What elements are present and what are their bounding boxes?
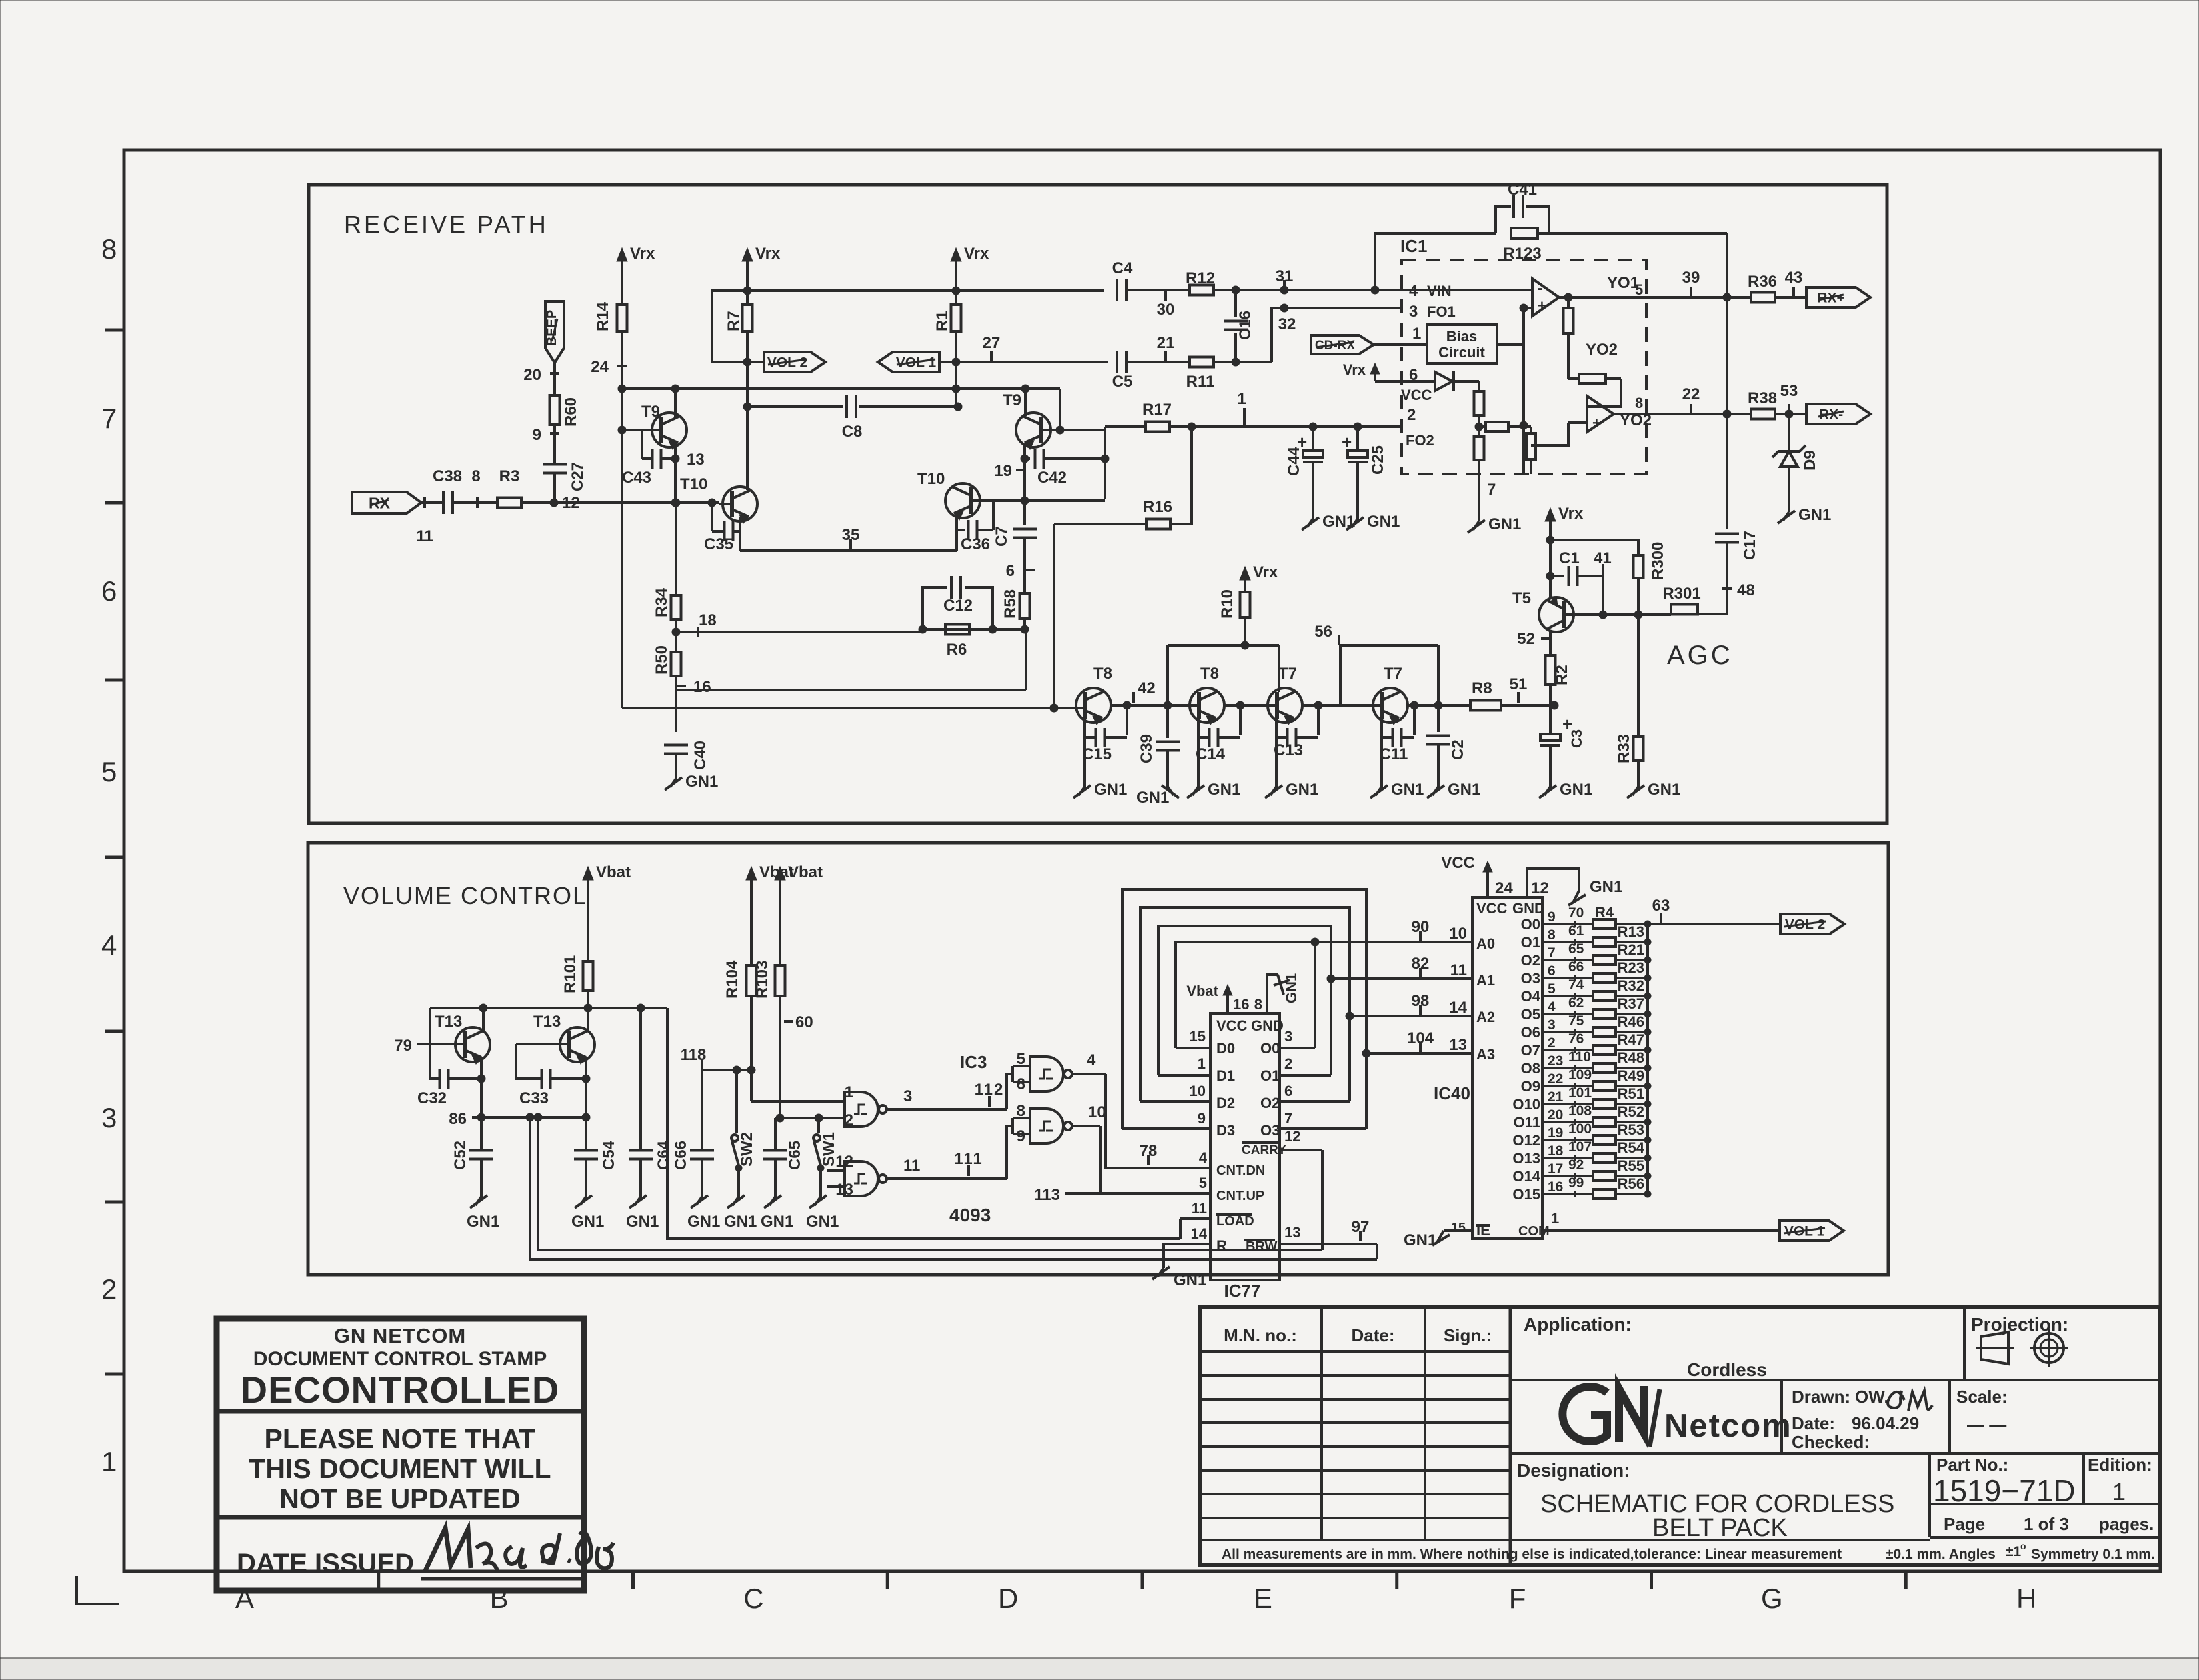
capacitor C52	[451, 1141, 493, 1197]
svg-text:O14: O14	[1512, 1168, 1540, 1185]
scale box	[1956, 1387, 2008, 1435]
resistor R53 ladder row O12	[1512, 1121, 1651, 1149]
capacitor C41 loop	[1496, 181, 1549, 233]
svg-text:60: 60	[795, 1013, 813, 1031]
row labels 8-1 with ticks	[101, 233, 124, 1477]
wire C3 to ground	[1549, 745, 1552, 787]
svg-text:1: 1	[1412, 325, 1421, 343]
node 18	[672, 611, 717, 652]
svg-text:8: 8	[101, 233, 117, 265]
stamp text GN NETCOM	[334, 1324, 466, 1347]
wire gate B output to CNT.DN	[1072, 1074, 1210, 1168]
capacitor C66	[672, 1070, 714, 1197]
IC77 CNT.DN pin	[1199, 1149, 1266, 1178]
capacitor C39	[1138, 705, 1180, 787]
node 97 and BRW loop down	[1352, 1218, 1377, 1259]
page row	[1944, 1514, 2154, 1534]
wire T5 base line	[1566, 611, 1671, 619]
drawn row	[1792, 1387, 1889, 1407]
wire R17 to node 1 and IC1 pin2	[1170, 423, 1402, 431]
svg-text:— —: — —	[1967, 1415, 2006, 1435]
capacitor C3	[1540, 729, 1585, 748]
IC40 COM pin and VOL1 wire	[1518, 1210, 1780, 1239]
ground GN1 under C44	[1302, 513, 1355, 531]
svg-text:O12: O12	[1512, 1132, 1540, 1149]
IC1 dashed boundary	[1400, 236, 1646, 474]
svg-text:2: 2	[1548, 1035, 1556, 1051]
svg-text:GN1: GN1	[1391, 781, 1424, 799]
connector VOL 1	[1780, 1221, 1844, 1241]
stamp text DECONTROLLED	[241, 1369, 560, 1411]
wire T13a emitter rail	[477, 1057, 485, 1151]
wire feedback from VIN node up	[1371, 233, 1496, 294]
svg-text:R48: R48	[1618, 1049, 1644, 1066]
svg-text:T13: T13	[435, 1013, 462, 1031]
transistor T13 (right)	[533, 1013, 595, 1064]
svg-text:BRW: BRW	[1246, 1239, 1278, 1254]
wire R58 to R6 node	[1021, 619, 1029, 633]
svg-text:LOAD: LOAD	[1216, 1214, 1254, 1229]
svg-text:R7: R7	[725, 311, 743, 331]
svg-text:SW2: SW2	[738, 1132, 756, 1167]
stamp divider 2	[217, 1515, 584, 1520]
zener diode D9	[1772, 414, 1819, 471]
svg-text:99: 99	[1568, 1175, 1584, 1191]
svg-text:T5: T5	[1512, 589, 1531, 607]
svg-text:GND: GND	[1251, 1017, 1284, 1034]
svg-text:GN1: GN1	[626, 1213, 659, 1231]
wire T7b collector to R8	[1408, 701, 1470, 709]
resistor R51 ladder row O10	[1512, 1085, 1651, 1113]
wire T13a collector	[479, 1004, 487, 1031]
svg-text:18: 18	[1548, 1143, 1564, 1159]
svg-text:G: G	[1761, 1583, 1783, 1614]
node 60	[784, 1013, 813, 1031]
wire D2 feedback loop	[1140, 907, 1350, 1101]
node 13	[671, 444, 705, 503]
wire R101 to collector rail	[584, 991, 592, 1012]
svg-text:10: 10	[1449, 925, 1467, 943]
ground GN1 under C2	[1427, 781, 1480, 799]
wire YO1 output	[1559, 274, 1727, 298]
resistor R7	[725, 305, 753, 331]
capacitor C42	[1021, 445, 1105, 487]
wire C38 to R3	[453, 501, 497, 504]
svg-text:VOLUME CONTROL: VOLUME CONTROL	[343, 882, 587, 909]
ground GN1 under C3	[1539, 781, 1592, 799]
capacitor C32 loop	[417, 1008, 481, 1107]
svg-text:+: +	[1297, 432, 1307, 452]
svg-text:79: 79	[394, 1037, 412, 1055]
node 1	[1237, 390, 1246, 427]
svg-text:C52: C52	[451, 1141, 469, 1170]
wire YO1 out to R36	[1723, 293, 1751, 301]
wire base-R17 vertical	[1104, 427, 1106, 499]
wire T10a emitter down	[739, 517, 741, 551]
svg-text:78: 78	[1140, 1142, 1158, 1160]
svg-text:56: 56	[1314, 623, 1332, 641]
svg-text:T13: T13	[533, 1013, 561, 1031]
capacitor C65	[763, 1118, 804, 1197]
svg-text:O2: O2	[1521, 952, 1540, 969]
wire gate C inputs	[827, 1171, 845, 1187]
svg-text:T9: T9	[1003, 391, 1021, 409]
svg-text:24: 24	[1495, 879, 1513, 897]
IC77 body	[1210, 1013, 1280, 1301]
ground GN1 under C39	[1136, 785, 1179, 807]
svg-text:9: 9	[1198, 1110, 1206, 1127]
svg-text:15: 15	[1190, 1028, 1206, 1045]
wire AGC top corner to R300	[1550, 540, 1638, 555]
svg-text:13: 13	[687, 451, 705, 469]
wire R12 to IC1 VIN	[1214, 289, 1402, 291]
node 43	[1775, 269, 1806, 298]
svg-text:3: 3	[903, 1087, 912, 1105]
svg-text:FO1: FO1	[1427, 303, 1456, 320]
wire VCC to diode	[1375, 380, 1435, 383]
svg-text:1 of 3: 1 of 3	[2024, 1514, 2069, 1534]
transistor T8 (first)	[1076, 665, 1112, 725]
part no box	[1930, 1453, 2008, 1537]
svg-text:35: 35	[842, 526, 860, 544]
capacitor C40	[664, 741, 709, 770]
svg-text:6: 6	[1548, 963, 1556, 979]
stamp date underline	[421, 1577, 587, 1581]
svg-text:O13: O13	[1512, 1150, 1540, 1167]
svg-text:D0: D0	[1216, 1040, 1235, 1057]
wire R3 to node 12	[521, 501, 554, 504]
svg-text:GN1: GN1	[1488, 515, 1521, 533]
svg-text:48: 48	[1737, 581, 1755, 599]
svg-text:All measurements are in mm: All measurements are in mm. Where nothin…	[1222, 1547, 1842, 1562]
svg-text:100: 100	[1568, 1121, 1592, 1137]
svg-text:R32: R32	[1618, 977, 1644, 994]
svg-text:T7: T7	[1384, 665, 1402, 683]
svg-text:18: 18	[699, 611, 717, 629]
svg-text:GN1: GN1	[685, 773, 718, 791]
svg-text:VCC: VCC	[1476, 900, 1508, 917]
svg-text:R60: R60	[562, 397, 580, 427]
svg-text:2: 2	[1407, 406, 1416, 424]
wire A1 address line	[1327, 975, 1472, 983]
svg-text:R21: R21	[1618, 941, 1644, 958]
svg-text:o: o	[2020, 1541, 2026, 1551]
resistor R301	[1662, 585, 1700, 615]
svg-text:T8: T8	[1093, 665, 1112, 683]
svg-text:C13: C13	[1274, 741, 1303, 759]
designation row	[1517, 1460, 1630, 1481]
node 21	[1157, 334, 1175, 362]
resistor R36	[1748, 273, 1777, 303]
node 56	[1314, 623, 1339, 645]
IC77 pin 8 ground	[1254, 973, 1300, 1013]
svg-text:E: E	[1254, 1583, 1272, 1614]
wire 79 base line	[394, 1037, 465, 1055]
svg-text:R14: R14	[594, 301, 612, 331]
svg-text:C42: C42	[1037, 469, 1067, 487]
IC77 O1 pin	[1260, 1055, 1331, 1084]
svg-text:4: 4	[1199, 1149, 1208, 1166]
ground GN1 under C66	[687, 1195, 720, 1231]
wire C27 to node 12	[553, 473, 556, 503]
ground GN1 under C54	[571, 1195, 604, 1231]
svg-text:GN1: GN1	[571, 1213, 604, 1231]
wire R104 to gate A input 1	[751, 1100, 845, 1103]
capacitor C35 on T10a	[704, 503, 740, 553]
svg-text:C25: C25	[1369, 445, 1387, 475]
resistor R11	[1186, 357, 1215, 391]
wire R103 line to gate and C65 SW1	[775, 1114, 845, 1122]
svg-text:C66: C66	[672, 1141, 690, 1170]
ground GN1 under R33	[1627, 781, 1680, 799]
bottom-left corner mark	[77, 1576, 119, 1604]
IC40 VCC GND labels	[1476, 900, 1545, 917]
wire R1 rail to bus A	[952, 362, 960, 407]
svg-text:C1: C1	[1559, 549, 1580, 567]
svg-text:+: +	[1592, 415, 1601, 431]
svg-text:Bias: Bias	[1446, 328, 1477, 345]
revision table header	[1224, 1325, 1492, 1345]
projection symbol trapezoid	[1976, 1332, 2014, 1364]
svg-text:104: 104	[1407, 1029, 1434, 1047]
connector VOL 1	[878, 352, 960, 372]
wire T7b base	[1340, 704, 1382, 707]
svg-text:11: 11	[1450, 961, 1467, 979]
application value Cordless	[1687, 1359, 1767, 1380]
svg-text:1: 1	[1237, 390, 1246, 408]
svg-text:O3: O3	[1521, 970, 1540, 987]
ground GN1 under C25	[1346, 513, 1400, 531]
wire Vrx to R7	[746, 270, 749, 305]
checked row	[1792, 1432, 1870, 1452]
node 32	[1278, 315, 1296, 333]
svg-text:86: 86	[449, 1110, 467, 1128]
connector RX+	[1806, 287, 1870, 307]
power Vrx mini arrow IC1	[1343, 361, 1380, 381]
svg-text:C38: C38	[433, 467, 462, 485]
resistor R12	[1186, 269, 1215, 295]
node 52	[1517, 630, 1550, 648]
scanner edge shadow bottom	[0, 1658, 2199, 1680]
svg-text:21: 21	[1548, 1089, 1564, 1105]
svg-text:GN1: GN1	[806, 1213, 839, 1231]
svg-text:R50: R50	[653, 645, 671, 675]
svg-text:23: 23	[1548, 1053, 1563, 1069]
resistor R3	[497, 467, 521, 508]
capacitor C15 on T8a emitter	[1082, 705, 1127, 763]
title VOLUME CONTROL	[343, 882, 587, 909]
svg-text:5: 5	[1199, 1175, 1207, 1191]
svg-text:R2: R2	[1553, 665, 1571, 685]
ground GN1 under T7b	[1370, 781, 1424, 799]
svg-text:GN1: GN1	[1798, 506, 1831, 524]
wire T7a collector up to 56 line	[1303, 645, 1340, 709]
bias horizontal resistor	[1475, 422, 1531, 431]
svg-text:Application:: Application:	[1524, 1314, 1632, 1335]
svg-text:111: 111	[954, 1150, 983, 1168]
svg-text:AGC: AGC	[1667, 641, 1733, 670]
revision table verticals	[1322, 1307, 1510, 1567]
capacitor C33 loop	[516, 1044, 586, 1107]
resistor R4 ladder row O0	[1521, 904, 1651, 933]
svg-text:C32: C32	[417, 1089, 447, 1107]
svg-text:C65: C65	[786, 1141, 804, 1170]
line under logo row	[1510, 1452, 2160, 1455]
transistor T7 (second)	[1373, 665, 1408, 725]
svg-text:A: A	[235, 1583, 254, 1614]
resistor R8	[1470, 679, 1501, 711]
wire BEEP to node 20	[553, 363, 556, 381]
wire C1 down to base	[1602, 564, 1604, 615]
svg-text:VCC: VCC	[1441, 854, 1475, 872]
line under page row	[1930, 1536, 2160, 1539]
wire bias box to vertical	[1497, 343, 1524, 346]
svg-text:9: 9	[1017, 1127, 1025, 1145]
svg-text:R104: R104	[723, 960, 741, 999]
IC77 CARRY pin	[1242, 1128, 1322, 1157]
svg-text:R33: R33	[1615, 734, 1633, 763]
wire YO2 plus input	[1531, 341, 1618, 445]
transistor T5	[1512, 589, 1574, 632]
svg-text:16: 16	[693, 678, 711, 696]
loop around R7	[712, 287, 751, 366]
page border frame	[124, 150, 2160, 1571]
svg-text:R6: R6	[947, 641, 967, 659]
node 16	[676, 676, 711, 732]
ground GN1 at IE	[1404, 1231, 1450, 1249]
capacitor C7	[993, 501, 1037, 547]
svg-text:R8: R8	[1472, 679, 1492, 697]
node 90 and pin 10	[1412, 918, 1467, 943]
wire CD-RX to Bias	[1374, 325, 1427, 345]
power Vrx arrow T8T7 bias	[1240, 563, 1278, 591]
wire R1 rail down	[952, 287, 960, 362]
node 82 and pin 11	[1412, 955, 1467, 979]
IC40 VCC pin 24	[1441, 854, 1513, 897]
IC40 GND pin 12 to GN1	[1527, 869, 1622, 905]
svg-text:PLEASE NOTE THAT: PLEASE NOTE THAT	[265, 1423, 536, 1454]
stamp text PLEASE NOTE THAT	[265, 1423, 536, 1454]
gate C pin labels	[835, 1153, 920, 1199]
svg-text:97: 97	[1352, 1218, 1370, 1236]
wire R14 to node 24	[621, 331, 623, 389]
op-amp YO2	[1587, 395, 1652, 432]
wire loop C from rail corner down and right	[667, 1008, 1180, 1239]
connector CD-RX	[1311, 335, 1374, 354]
svg-text:61: 61	[1568, 923, 1584, 939]
svg-text:118: 118	[681, 1046, 707, 1064]
wire O0 line to VOL2	[1648, 923, 1780, 925]
svg-text:6: 6	[1284, 1083, 1292, 1099]
op-amp YO1	[1532, 279, 1559, 316]
svg-text:R36: R36	[1748, 273, 1777, 291]
capacitor C16	[1224, 286, 1254, 362]
svg-text:R34: R34	[653, 587, 671, 617]
svg-text:C4: C4	[1112, 259, 1133, 277]
transistor T10 (right)	[917, 470, 980, 520]
IC40 body	[1434, 897, 1542, 1239]
capacitor C2	[1426, 705, 1467, 787]
svg-text:-: -	[1538, 279, 1543, 297]
svg-text:+: +	[1538, 297, 1546, 314]
svg-text:74: 74	[1568, 977, 1584, 993]
resistor R38	[1748, 389, 1777, 419]
resistor R60	[550, 373, 581, 427]
svg-text:5: 5	[1635, 281, 1643, 298]
svg-text:GN1: GN1	[1283, 973, 1300, 1003]
wire T9a base	[618, 426, 661, 434]
pin 2 FO2 label	[1406, 406, 1434, 449]
label 4093	[949, 1205, 991, 1225]
capacitor C8 between rails	[743, 395, 962, 441]
projection box	[1964, 1307, 2068, 1380]
title RECEIVE PATH	[344, 211, 549, 238]
svg-text:D: D	[998, 1583, 1018, 1614]
svg-text:1: 1	[2112, 1478, 2126, 1505]
svg-text:O3: O3	[1260, 1122, 1280, 1139]
svg-text:70: 70	[1568, 905, 1584, 921]
node 42	[1134, 679, 1156, 703]
nand gate B	[1030, 1057, 1072, 1091]
projection symbol circle	[2030, 1329, 2068, 1367]
resistor R50	[653, 645, 681, 676]
svg-text:13: 13	[1449, 1036, 1467, 1054]
svg-text:12: 12	[835, 1153, 853, 1171]
svg-text:R37: R37	[1618, 995, 1644, 1012]
svg-text:21: 21	[1157, 334, 1175, 352]
svg-text:Drawn:: Drawn:	[1792, 1387, 1850, 1407]
node 24	[591, 358, 627, 376]
svg-text:C: C	[743, 1583, 763, 1614]
svg-text:Vrx: Vrx	[1558, 505, 1584, 523]
svg-text:3: 3	[101, 1102, 117, 1133]
svg-text:6: 6	[1017, 1075, 1025, 1093]
svg-text:20: 20	[523, 366, 541, 384]
svg-text:DECONTROLLED: DECONTROLLED	[241, 1369, 560, 1411]
wire gate D output to CNT.UP	[1072, 1126, 1210, 1193]
svg-text:4: 4	[101, 929, 117, 961]
node 6	[1006, 562, 1035, 580]
svg-text:112: 112	[975, 1081, 1005, 1099]
svg-text:C16: C16	[1236, 311, 1254, 340]
svg-text:Vbat: Vbat	[788, 863, 823, 881]
resistor R17	[1105, 401, 1172, 432]
svg-text:2: 2	[1284, 1055, 1292, 1072]
wire Vrx to R14	[621, 270, 623, 305]
resistor R10	[1218, 589, 1250, 619]
node 22	[1682, 385, 1700, 415]
svg-text:THIS DOCUMENT WILL: THIS DOCUMENT WILL	[249, 1453, 551, 1484]
svg-text:GN1: GN1	[1286, 781, 1318, 799]
tolerance strip	[1200, 1539, 1930, 1541]
svg-text:8: 8	[471, 467, 480, 485]
svg-text:T8: T8	[1200, 665, 1219, 683]
svg-text:C15: C15	[1082, 745, 1112, 763]
label AGC	[1667, 641, 1733, 670]
svg-text:R10: R10	[1218, 589, 1236, 619]
svg-text:19: 19	[994, 462, 1012, 480]
node bus A left corner	[618, 385, 626, 393]
svg-text:IC77: IC77	[1224, 1281, 1261, 1301]
IC40 A1 label	[1476, 972, 1495, 989]
connector RX	[352, 492, 421, 513]
wire 86 line	[481, 1113, 586, 1121]
svg-text:65: 65	[1568, 941, 1584, 957]
bias network vertical resistors	[1474, 381, 1484, 474]
tolerance note text	[1222, 1541, 2155, 1562]
svg-text:1: 1	[1551, 1210, 1559, 1227]
transistor T9 (left)	[641, 403, 687, 449]
